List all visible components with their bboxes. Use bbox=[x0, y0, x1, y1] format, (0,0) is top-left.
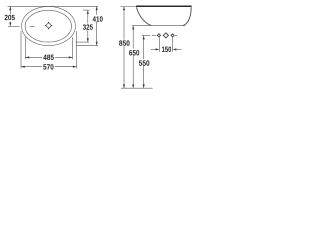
label 850 bbox=[119, 40, 130, 45]
150 left extension line bbox=[158, 37, 160, 52]
dimension 650 line bbox=[132, 26, 134, 89]
570 right extension line bbox=[76, 31, 78, 69]
tap hole axis line bbox=[142, 35, 178, 37]
inner basin ellipse bbox=[25, 10, 71, 42]
label 150 bbox=[162, 47, 171, 52]
drain symbol bbox=[45, 22, 52, 29]
centerline through drain bbox=[8, 26, 35, 28]
485 right extension line bbox=[72, 37, 74, 59]
label 205 bbox=[5, 15, 15, 20]
dimension 850 line bbox=[123, 7, 125, 89]
label 550 bbox=[139, 60, 150, 65]
side view bowl left wall bbox=[136, 7, 151, 25]
label 485 bbox=[43, 55, 54, 60]
label 650 bbox=[129, 50, 139, 55]
dimension 410 line bbox=[96, 6, 98, 45]
side view bowl right wall bbox=[183, 8, 191, 26]
650 top extension line / basin underside bbox=[132, 25, 185, 27]
floor line bbox=[121, 87, 153, 89]
side view rim right end tick bbox=[190, 7, 192, 8]
850 top extension line bbox=[120, 6, 136, 8]
top extension line (outer oval top tangent) bbox=[8, 5, 98, 7]
325 bottom extension line bbox=[76, 41, 90, 43]
label 325 bbox=[83, 24, 93, 29]
outer rim ellipse bbox=[22, 6, 76, 45]
410 bottom extension line bbox=[76, 45, 98, 47]
tap hole small diamond right bbox=[171, 34, 174, 37]
dimension 550 line bbox=[143, 36, 145, 89]
dimension 325 line bbox=[87, 10, 89, 42]
label 570 bbox=[43, 64, 53, 69]
tap hole large diamond center bbox=[163, 33, 169, 39]
dimension 205 line bbox=[9, 6, 11, 26]
dimension 150 line with outside arrows bbox=[151, 48, 182, 50]
485 left extension line bbox=[24, 37, 26, 59]
150 right extension line bbox=[172, 37, 174, 52]
570 left extension line bbox=[20, 31, 22, 69]
dimension 485 line bbox=[25, 56, 72, 58]
325 top extension tick bbox=[83, 9, 90, 11]
dimension 570 line bbox=[21, 66, 77, 68]
side view rim top line bbox=[136, 5, 192, 7]
label 410 bbox=[93, 16, 103, 21]
tap hole small diamond left bbox=[157, 34, 160, 37]
